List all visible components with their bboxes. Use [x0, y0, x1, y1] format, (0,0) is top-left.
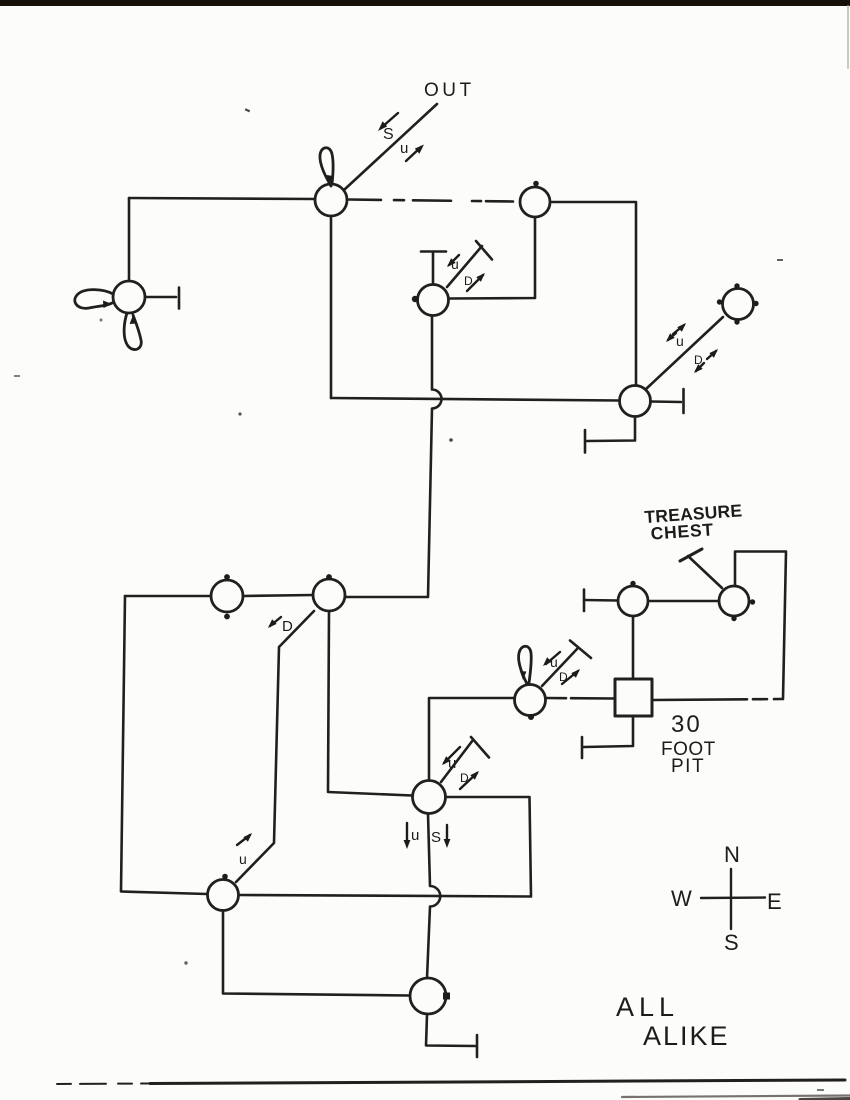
wire: node E bottom stub to blocked end [587, 417, 635, 441]
wire: zigzag D/u passage node G to node N [236, 611, 314, 882]
bottom dot on node F [224, 614, 230, 620]
arrowhead of bottom self-loop on node D [130, 315, 137, 324]
dot on node B [533, 181, 539, 187]
node G [313, 579, 345, 611]
wire: node L down to pit square [632, 617, 635, 678]
S down-arrowhead below node J [444, 839, 451, 848]
scan speck [100, 319, 103, 322]
wire: U/D diagonal node E to four-dot node [646, 317, 723, 389]
blocked bar below node E [584, 430, 587, 453]
wire: left tall vertical down to bottom-left corner [121, 596, 125, 891]
right dot on node M [750, 599, 755, 604]
S arrow stroke near OUT [381, 113, 398, 128]
bottom dot on node M [731, 616, 736, 621]
next page edge bottom right [622, 1096, 850, 1098]
node A (room with OUT passage) [315, 184, 347, 216]
u up-arrowhead on node E diagonal [677, 323, 686, 332]
wire: central vertical from node C with hop over horizontal, then left to node G [345, 316, 442, 597]
node L [618, 586, 648, 616]
blocked bar right of node E [682, 389, 685, 413]
dot on node G [326, 574, 332, 580]
svg-text:u: u [239, 851, 247, 867]
svg-text:N: N [724, 842, 740, 867]
svg-text:u: u [451, 256, 459, 272]
bottom self-loop on node D [124, 313, 141, 350]
node J [413, 781, 446, 814]
D arrow stroke on node G zigzag [270, 617, 281, 626]
u arrowhead on node C diagonal [447, 258, 456, 267]
wire: node N down then right to node P [223, 911, 409, 996]
D arrowhead on node I diagonal [571, 669, 580, 678]
D arrow stroke on node C diagonal [467, 275, 483, 291]
wire: entrance stub above node C [432, 253, 435, 285]
wire: node L left stub to blocked end [584, 599, 618, 602]
wire: long horizontal A-corner to node E [331, 398, 619, 401]
scan speck [245, 108, 250, 112]
svg-text:ALL: ALL [616, 992, 679, 1022]
node D (room with two self-loops) [113, 281, 145, 313]
bottom dot on four-dot node W [734, 319, 739, 324]
wire: node J right, down, and long horizontal back to node N [239, 797, 531, 897]
wire: node G down then right to node J [328, 611, 412, 796]
wire: node M up, right, and down to pit right horizontal [735, 552, 786, 700]
D arrowhead on node J diagonal [470, 771, 479, 780]
D arrowhead on node C diagonal [476, 273, 485, 282]
u arrow stroke near OUT [406, 147, 421, 161]
blocked bar left of node L [583, 590, 586, 612]
pit square (30 foot pit) [615, 679, 652, 716]
node N [208, 880, 239, 911]
wire: treasure chest diagonal from node M [688, 556, 722, 588]
wire: bottom-left horizontal to node N [121, 892, 207, 895]
svg-text:PIT: PIT [671, 756, 705, 777]
wire: OUT passage diagonal from node A [345, 104, 437, 189]
entrance bar above node C [421, 250, 446, 253]
wire: node E right stub to blocked end [651, 400, 681, 403]
u arrow stroke on node J diagonal [444, 747, 460, 763]
wire: node F left horizontal [125, 595, 211, 598]
wire: pit square bottom stub to blocked end [584, 716, 633, 747]
dot on node C [412, 296, 418, 302]
svg-text:D: D [559, 670, 568, 684]
blocked bar on node I diagonal [570, 641, 591, 659]
wire: node B right then down to node E [550, 202, 636, 386]
compass cross horizontal [701, 896, 765, 899]
svg-text:u: u [411, 827, 419, 844]
scan speck [817, 1089, 824, 1091]
u down-arrowhead on node E diagonal [666, 333, 675, 342]
svg-text:u: u [400, 140, 408, 157]
blocked-end bar right of node D [178, 288, 181, 309]
scan speck [449, 438, 453, 442]
svg-text:OUT: OUT [424, 80, 475, 101]
u arrowhead on node I diagonal [543, 657, 552, 666]
wire: node I left horizontal then down to node J [429, 698, 514, 781]
u arrowhead on node G zigzag [243, 833, 252, 842]
node E [620, 386, 651, 417]
node B [520, 187, 550, 217]
D up-arrowhead on node E diagonal [709, 349, 718, 358]
arrowhead of left self-loop on node D [103, 301, 112, 309]
wire: node A down vertical [330, 216, 333, 398]
node W (four-dot room) [723, 289, 754, 320]
svg-text:D: D [282, 618, 293, 635]
svg-text:u: u [448, 755, 456, 772]
scan speck [777, 259, 783, 261]
page top border bar [0, 0, 850, 6]
u down-arrowhead below node J [404, 840, 411, 849]
wire: node P down stub to blocked end [426, 1015, 475, 1046]
node I (room with self-loop) [515, 685, 546, 716]
node F [211, 580, 243, 612]
svg-text:ALIKE: ALIKE [643, 1021, 730, 1051]
u arrow stroke on node G zigzag [237, 835, 250, 845]
wire: node I right horizontal to pit square [546, 697, 614, 700]
D down-arrow stroke on node E diagonal [696, 363, 704, 371]
faint scan line right edge [847, 6, 849, 68]
node C [418, 285, 449, 316]
D up-arrow stroke on node E diagonal [707, 351, 716, 359]
S arrowhead near OUT [378, 121, 387, 131]
S down-arrow stroke below node J [446, 825, 448, 844]
left dot on four-dot node W [717, 299, 722, 304]
blocked bar on node C diagonal [476, 241, 492, 260]
scan speck [14, 375, 20, 377]
arrowhead of self-loop on node I [520, 671, 527, 680]
D arrow stroke on node I diagonal [562, 671, 578, 684]
svg-text:30: 30 [671, 711, 702, 738]
wire: left vertical from A-left corner down to node D [128, 198, 131, 281]
dot on node I [528, 714, 534, 720]
label TREASURE CHEST [644, 500, 744, 544]
node P [410, 978, 446, 1014]
page bottom rule [57, 1083, 150, 1086]
blocked bar left of pit bottom stub [581, 737, 584, 758]
self-loop on node A [320, 148, 333, 186]
wire: node B down then left to node C [449, 218, 535, 299]
compass cross vertical [730, 869, 732, 929]
node M [719, 586, 749, 616]
svg-text:D: D [694, 353, 703, 367]
self-loop on node I [519, 646, 532, 684]
svg-text:W: W [671, 886, 692, 911]
svg-text:D: D [460, 771, 469, 785]
u arrow stroke on node I diagonal [546, 652, 560, 664]
wire: U/D diagonal at node J [441, 740, 473, 782]
scan speck [238, 412, 241, 415]
wire: dashed passage node A to node B [349, 200, 513, 202]
u arrowhead near OUT [415, 145, 424, 154]
wire: node D right stub to blocked end [145, 296, 176, 299]
wire: node J down vertical with hop, to node P [427, 814, 440, 978]
dot on node L [630, 581, 635, 586]
D arrowhead on node G zigzag [268, 619, 277, 628]
wire: U/D diagonal passage at node C [447, 246, 482, 287]
top dot on node F [224, 574, 230, 580]
wire: pit square right horizontal [652, 699, 783, 700]
svg-text:u: u [550, 654, 558, 670]
dot on node N [222, 874, 228, 880]
svg-text:u: u [676, 333, 684, 349]
svg-text:S: S [431, 829, 441, 846]
u arrow stroke on node C diagonal [449, 255, 459, 265]
arrowhead of self-loop on node A [327, 175, 334, 184]
top dot on four-dot node W [734, 283, 739, 288]
wire: node A left horizontal [129, 198, 316, 199]
u up-arrow stroke on node E diagonal [673, 325, 684, 334]
svg-text:S: S [724, 930, 739, 955]
u down-arrow stroke below node J [406, 823, 408, 845]
D arrow stroke on node J diagonal [460, 773, 477, 789]
blocked bar on node J diagonal [471, 737, 489, 758]
svg-text:S: S [383, 126, 394, 143]
treasure chest bar [680, 549, 702, 561]
dot on node P [443, 993, 450, 1000]
svg-text:E: E [767, 889, 782, 914]
scan speck [184, 961, 187, 964]
left self-loop on node D [75, 290, 113, 309]
D down-arrowhead on node E diagonal [694, 364, 703, 373]
wire: node L to node M horizontal [649, 600, 719, 603]
right dot on four-dot node W [753, 301, 758, 306]
blocked bar right of node P stub [476, 1035, 479, 1057]
wire: U/D diagonal at node I [542, 649, 577, 686]
wire: node F to node G horizontal [243, 595, 313, 596]
u arrowhead on node J diagonal [442, 756, 451, 765]
u down-arrow stroke on node E diagonal [668, 333, 676, 340]
svg-text:D: D [464, 274, 473, 288]
